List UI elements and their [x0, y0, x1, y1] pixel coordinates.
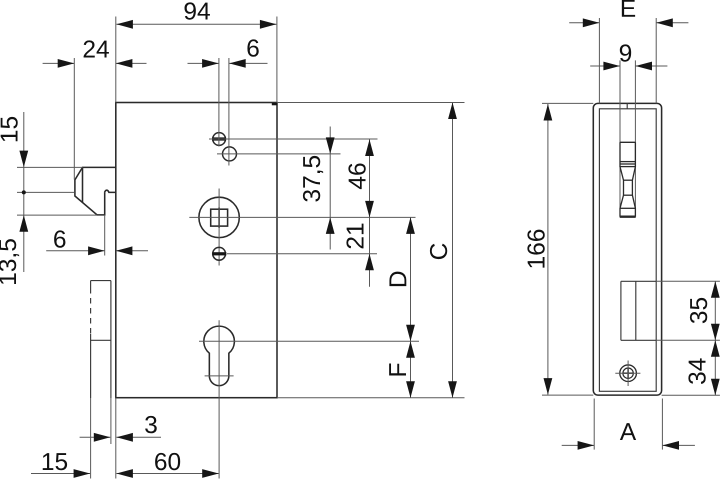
left dim line 15-13,5 — [23, 112, 25, 272]
dim 3 arrow right — [116, 433, 132, 442]
dim 24 right tail — [116, 62, 147, 64]
dim label 35 — [690, 298, 707, 323]
dim label C — [430, 244, 447, 260]
dim E arrow right — [656, 18, 673, 27]
dim 35 arrow up — [711, 281, 720, 298]
dim label 166 — [527, 230, 544, 268]
dim D arrow down — [406, 325, 415, 342]
dim 60 arrow left — [116, 469, 132, 478]
dim D line — [410, 217, 412, 341]
dim 6 bolt left tail — [46, 250, 104, 252]
dim 37,5 line — [329, 127, 331, 250]
dim 24 extension (bolt face) — [73, 58, 75, 180]
dim label 46 — [348, 163, 365, 189]
dim label F — [389, 363, 406, 375]
dim 166 line — [547, 104, 549, 395]
dim F arrow down — [406, 381, 415, 398]
dim A right tail — [663, 444, 695, 446]
hole H1 leader — [209, 138, 378, 140]
bolt mid edge leader (to dot) — [17, 191, 75, 193]
dim label 34 — [688, 358, 705, 384]
bolt rear line (6 dim reference) — [104, 215, 106, 256]
hole H2 leader — [217, 153, 341, 155]
dim label D — [389, 272, 406, 287]
follower square spindle hole — [211, 208, 228, 228]
hole H1 vertical centerline — [218, 58, 220, 147]
hub vertical centerline — [218, 189, 220, 266]
dim label 21 — [346, 224, 363, 249]
fixing hole H2 — [223, 147, 237, 161]
dim 9 arrow right — [636, 62, 653, 71]
case bottom edge leader right — [277, 397, 465, 399]
dim C arrow down — [448, 381, 457, 398]
dim C arrow up — [448, 103, 457, 120]
dim E left tail — [569, 22, 599, 24]
dim label 24 — [84, 40, 109, 57]
faceplate bottom leader — [662, 394, 720, 396]
dim 34 arrow up — [711, 340, 720, 357]
dim 166 extension bottom — [542, 394, 593, 396]
dim A extension left — [593, 399, 595, 450]
dim 37,5 arrow down (outside top) — [326, 137, 335, 154]
dim 24 arrow left — [58, 59, 74, 68]
dim 9 left tail — [590, 65, 620, 67]
dim A arrow right — [663, 441, 680, 450]
screw hole v-centerline — [627, 361, 629, 387]
dim 60 arrow right — [202, 469, 219, 478]
dim 24 left tail — [43, 62, 75, 64]
dim label 37,5 — [303, 156, 323, 202]
dim 3 left tail — [80, 436, 111, 438]
strip left edge extension down — [90, 398, 92, 479]
bolt bottom edge leader (to 13,5 dim) — [17, 214, 97, 216]
fixing hole H1 (slotted) — [212, 133, 226, 146]
faceplate outline (side view) — [593, 103, 661, 395]
dim E extension left — [598, 18, 600, 103]
dim 6 bolt arrow left — [88, 246, 105, 255]
dim 60 line — [116, 473, 218, 475]
dim 94 extension right — [276, 17, 278, 103]
dim 6 bolt right tail — [116, 250, 148, 252]
dim 34 arrow down — [711, 379, 720, 396]
dim label 6 bolt — [54, 230, 65, 247]
lock case outline (front view) — [116, 103, 277, 398]
dim A left tail — [562, 444, 594, 446]
dim C line — [452, 103, 454, 398]
cylinder horizontal centerline and leader — [199, 340, 419, 342]
hook bolt in slot (side view) — [620, 142, 636, 216]
dimension 94 line — [116, 23, 276, 25]
dim 166 extension top — [542, 102, 593, 104]
dim label 13,5 left — [0, 239, 19, 284]
dim 3 arrow left — [94, 433, 111, 442]
dim 35 arrow down — [711, 324, 720, 341]
case top edge leader right — [277, 102, 465, 104]
dim 9 right tail — [636, 65, 668, 67]
dim F arrow up — [406, 341, 415, 358]
hole H3 leader — [227, 253, 377, 255]
dim 15 arrow down — [19, 151, 28, 168]
dim D arrow up — [406, 217, 415, 234]
dim 15 bottom arrow — [74, 469, 91, 478]
dim label 6 top — [247, 39, 258, 56]
dim label 94 — [185, 2, 210, 19]
dim 9 arrow left — [603, 62, 620, 71]
dim E arrow left — [583, 18, 600, 27]
dim 46 arrow up — [365, 140, 374, 157]
dim label 15 left — [1, 117, 18, 141]
dim 6 top right tail — [229, 62, 267, 64]
cylinder vertical centerline — [218, 320, 220, 478]
dim label 3 — [145, 416, 157, 433]
dim label 15 bottom — [43, 453, 67, 470]
countersunk screw hole (side view) — [620, 365, 637, 382]
dim 6 top left tail — [188, 62, 219, 64]
dim label A — [620, 423, 636, 440]
bolt top edge leader (to 15 dim) — [17, 166, 83, 168]
case top-right corner weld tick — [272, 103, 277, 105]
dim A extension right — [661, 399, 663, 450]
faceplate top seam tick — [626, 103, 628, 108]
cylinder stem centerline tick — [205, 375, 234, 377]
dim 3 right tail — [116, 436, 161, 438]
dim E extension right — [655, 18, 657, 103]
dim label 9 — [620, 44, 631, 61]
dim 46-21 line — [369, 140, 371, 287]
dim label E — [622, 0, 635, 17]
hub horizontal centerline and leader — [189, 216, 415, 218]
hook bolt protruding left of case — [75, 167, 116, 215]
dim label 60 — [155, 453, 180, 470]
dim 46 arrow down — [365, 201, 374, 218]
dim 13,5 arrow up — [19, 215, 28, 232]
dim 24 arrow right — [116, 59, 132, 68]
dim 94 arrow right — [260, 20, 277, 29]
dim 6 bolt arrow right — [116, 246, 132, 255]
hook slot left edge — [619, 60, 621, 216]
euro profile cylinder hole — [204, 326, 235, 386]
lock case behind faceplate — [599, 109, 656, 392]
dim 94 arrow left — [116, 20, 132, 29]
dim A arrow left — [578, 441, 595, 450]
cylinder cutout in case (side view) — [621, 281, 656, 340]
dim E right tail — [656, 22, 688, 24]
dim 6 top arrow left — [202, 59, 219, 68]
dim 15 bottom tail — [31, 473, 90, 475]
follower hub circle — [199, 197, 239, 237]
dim 166 arrow down — [544, 378, 553, 395]
hook slot right edge — [634, 60, 636, 216]
chain dot at bolt mid edge — [22, 190, 26, 194]
dim 21 arrow up (outside) — [365, 254, 374, 270]
cutout bottom leader — [656, 339, 720, 341]
dim 6 top arrow right — [229, 59, 246, 68]
faceplate strike strip below bolt — [91, 281, 111, 398]
dim 94 extension left — [115, 17, 117, 103]
screw hole h-centerline — [615, 372, 640, 374]
dim 3 extension (strip edge) — [110, 398, 112, 444]
dim 35-34 line — [714, 281, 716, 395]
dim 166 arrow up — [544, 104, 553, 121]
case left edge extension down — [115, 398, 117, 479]
dim 37,5 arrow up (outside bottom) — [326, 217, 335, 234]
dim F line — [410, 341, 412, 398]
cutout top leader — [656, 280, 720, 282]
hole H2 vertical centerline — [228, 58, 230, 166]
fixing hole H3 (slotted) — [213, 247, 227, 260]
